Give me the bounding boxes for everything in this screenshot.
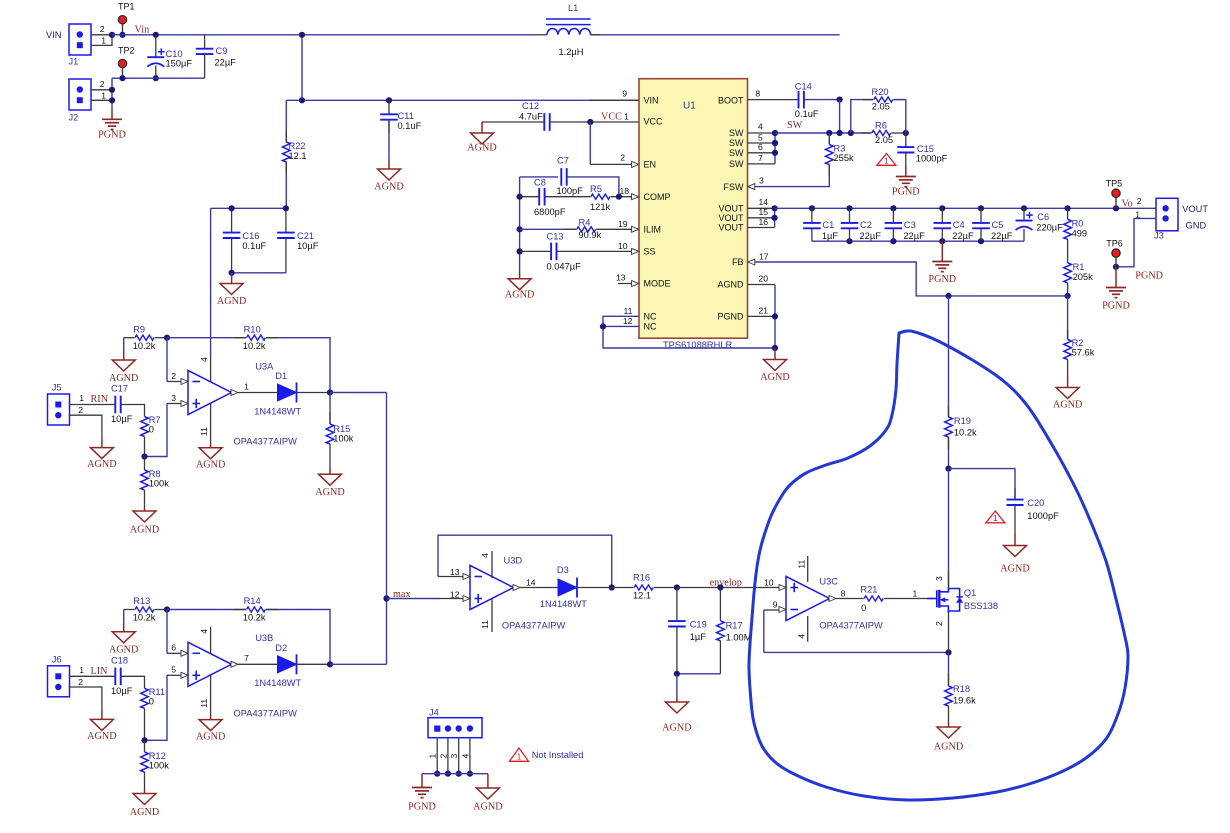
resistor R2 57.6k xyxy=(1067,296,1069,340)
svg-text:1N4148WT: 1N4148WT xyxy=(254,406,301,416)
svg-text:3: 3 xyxy=(171,393,176,403)
wire VOUT rail xyxy=(775,207,1156,209)
svg-text:AGND: AGND xyxy=(196,731,225,742)
svg-text:2: 2 xyxy=(78,405,83,415)
svg-text:5: 5 xyxy=(171,665,176,675)
svg-text:1000pF: 1000pF xyxy=(916,153,948,163)
svg-text:RIN: RIN xyxy=(91,394,109,405)
diode D2 1N4148WT xyxy=(238,663,278,665)
svg-text:R11: R11 xyxy=(149,687,165,697)
svg-text:1: 1 xyxy=(101,91,106,101)
svg-text:AGND: AGND xyxy=(109,373,138,384)
resistor R12 100k xyxy=(144,740,146,752)
svg-text:10µF: 10µF xyxy=(111,686,133,696)
test point TP6 xyxy=(1115,253,1117,267)
svg-text:AGND: AGND xyxy=(374,182,403,193)
svg-text:U3A: U3A xyxy=(255,361,274,371)
wire inverting input pin 6 xyxy=(166,610,168,654)
transistor Q1 BSS138 xyxy=(927,598,937,600)
svg-text:SW: SW xyxy=(729,138,744,148)
svg-text:1: 1 xyxy=(913,588,918,598)
svg-text:8: 8 xyxy=(841,588,846,598)
svg-text:AGND: AGND xyxy=(467,143,496,154)
svg-text:12.1: 12.1 xyxy=(289,151,307,161)
svg-text:150µF: 150µF xyxy=(166,59,193,69)
svg-text:4: 4 xyxy=(796,634,806,639)
capacitor C19 1uF xyxy=(676,588,678,622)
capacitor C17 10uF xyxy=(70,404,116,406)
svg-text:AGND: AGND xyxy=(87,459,116,470)
svg-text:11: 11 xyxy=(480,620,490,629)
resistor R6 2.05 xyxy=(861,132,871,134)
note Not Installed xyxy=(510,748,529,761)
svg-text:VOUT: VOUT xyxy=(1182,204,1208,214)
svg-text:C19: C19 xyxy=(690,620,707,630)
resistor R18 19.6k xyxy=(948,652,950,686)
wire J2 leads xyxy=(91,89,112,91)
svg-text:255k: 255k xyxy=(834,153,855,163)
svg-text:2: 2 xyxy=(1137,196,1142,206)
svg-text:U3B: U3B xyxy=(255,633,273,643)
svg-text:10.2k: 10.2k xyxy=(133,341,156,351)
svg-text:0.1uF: 0.1uF xyxy=(242,241,266,251)
svg-text:VCC: VCC xyxy=(601,111,622,122)
wire COMP bus xyxy=(519,177,521,270)
wire VIN rail to U1 xyxy=(286,99,639,101)
svg-text:R7: R7 xyxy=(149,415,161,425)
svg-text:PGND: PGND xyxy=(928,274,956,285)
svg-text:2: 2 xyxy=(100,79,105,89)
capacitor C16 0.1uF xyxy=(211,207,286,209)
svg-text:LIN: LIN xyxy=(91,666,109,677)
svg-text:FSW: FSW xyxy=(724,182,745,192)
connector J2 xyxy=(69,79,91,110)
resistor R21 0 xyxy=(836,598,864,600)
svg-text:21: 21 xyxy=(759,306,769,316)
svg-text:C7: C7 xyxy=(557,156,569,166)
wire VOUT bottom rail xyxy=(812,240,1024,242)
ground PGND TP6 xyxy=(1115,267,1117,288)
svg-text:4.7uF: 4.7uF xyxy=(519,111,543,121)
svg-text:0.1uF: 0.1uF xyxy=(795,109,819,119)
svg-text:NC: NC xyxy=(644,312,657,322)
svg-text:C15: C15 xyxy=(917,144,934,154)
wire envelope filter bottom xyxy=(677,673,721,675)
ground AGND U1 xyxy=(774,348,776,360)
svg-text:AGND: AGND xyxy=(505,290,534,301)
svg-text:14: 14 xyxy=(759,197,769,207)
resistor R7 0 xyxy=(141,417,149,437)
capacitor C11 0.1uF xyxy=(388,100,390,114)
wire VOUT pins chain xyxy=(748,207,775,209)
svg-text:C3: C3 xyxy=(904,220,916,230)
ground AGND C20 xyxy=(1014,534,1016,546)
wire J5 pin2 to AGND xyxy=(70,415,102,437)
test point TP5 xyxy=(1115,193,1117,208)
svg-text:D1: D1 xyxy=(275,371,287,381)
svg-text:20: 20 xyxy=(759,274,769,284)
svg-text:100pF: 100pF xyxy=(557,186,584,196)
svg-text:8: 8 xyxy=(755,89,760,99)
svg-text:AGND: AGND xyxy=(196,460,225,471)
ground AGND envelope filter xyxy=(676,674,678,697)
svg-text:Q1: Q1 xyxy=(964,588,976,598)
svg-text:6800pF: 6800pF xyxy=(534,207,566,217)
svg-text:1: 1 xyxy=(517,753,522,762)
resistor R1 205k xyxy=(1064,263,1072,283)
ground AGND R9 xyxy=(123,338,125,351)
test point TP1 xyxy=(122,20,124,35)
svg-text:7: 7 xyxy=(244,653,249,663)
svg-text:U1: U1 xyxy=(683,101,696,112)
resistor R19 10.2k xyxy=(948,296,950,417)
svg-text:AGND: AGND xyxy=(315,487,344,498)
svg-text:VOUT: VOUT xyxy=(718,204,744,214)
svg-text:R8: R8 xyxy=(149,469,161,479)
ground AGND C16 xyxy=(231,273,233,284)
ground AGND C11 xyxy=(388,159,390,169)
svg-text:AGND: AGND xyxy=(109,645,138,656)
ground AGND J5 xyxy=(101,437,103,447)
svg-text:4: 4 xyxy=(199,357,209,362)
svg-text:EN: EN xyxy=(644,160,657,170)
svg-text:SW: SW xyxy=(729,148,744,158)
svg-text:4: 4 xyxy=(199,629,209,634)
wire SW rail xyxy=(775,132,871,134)
svg-text:C18: C18 xyxy=(111,656,128,666)
svg-text:10.2k: 10.2k xyxy=(954,428,977,438)
svg-text:R16: R16 xyxy=(633,573,650,583)
capacitor C13 0.047uF xyxy=(520,250,551,252)
svg-text:6: 6 xyxy=(758,142,763,152)
svg-text:GND: GND xyxy=(1186,221,1207,231)
connector J5 xyxy=(48,394,70,425)
svg-text:11: 11 xyxy=(623,306,632,316)
capacitor C9 22uF xyxy=(204,35,206,49)
wire J4 leads xyxy=(436,738,438,774)
svg-text:1000pF: 1000pF xyxy=(1027,511,1059,521)
svg-text:R13: R13 xyxy=(133,596,150,606)
wire U3C feedback xyxy=(763,610,765,652)
svg-text:VCC: VCC xyxy=(644,116,664,126)
warning triangle C20 xyxy=(986,511,1005,523)
ground AGND J4 xyxy=(487,774,489,788)
svg-text:NC: NC xyxy=(644,322,657,332)
svg-text:PGND: PGND xyxy=(1135,270,1163,281)
svg-text:1: 1 xyxy=(428,754,438,759)
svg-text:1µF: 1µF xyxy=(690,632,707,642)
svg-text:1: 1 xyxy=(79,393,84,403)
svg-text:OPA4377AIPW: OPA4377AIPW xyxy=(502,621,566,631)
capacitor C4 22µF xyxy=(941,208,943,223)
svg-text:BOOT: BOOT xyxy=(718,96,744,106)
svg-text:12: 12 xyxy=(450,589,460,599)
svg-text:VIN: VIN xyxy=(46,30,62,40)
svg-text:TP6: TP6 xyxy=(1106,238,1123,248)
wire U3A pin 11 xyxy=(210,404,212,444)
svg-text:C14: C14 xyxy=(795,81,812,91)
wire VCC to EN xyxy=(589,122,591,164)
svg-text:R22: R22 xyxy=(289,141,306,151)
svg-text:2: 2 xyxy=(438,754,448,759)
resistor R4 90.9k xyxy=(520,228,577,230)
svg-text:1: 1 xyxy=(244,381,249,391)
svg-text:TP1: TP1 xyxy=(118,2,135,12)
op-amp U3D OPA4377AIPW xyxy=(470,565,514,609)
svg-text:BSS138: BSS138 xyxy=(964,601,998,611)
svg-text:2: 2 xyxy=(620,153,625,163)
wire Q1 source xyxy=(948,613,950,652)
resistor R8 100k xyxy=(144,457,146,471)
svg-text:11: 11 xyxy=(199,699,209,708)
svg-text:1: 1 xyxy=(993,514,998,523)
wire J6 pin2 to AGND xyxy=(70,687,102,709)
resistor R10 10.2k xyxy=(167,337,246,339)
pin MODE stub xyxy=(618,283,632,285)
ground AGND U3A xyxy=(210,444,212,448)
svg-text:22µF: 22µF xyxy=(991,231,1013,241)
svg-text:C2: C2 xyxy=(860,220,872,230)
svg-text:4: 4 xyxy=(758,122,763,132)
svg-text:J3: J3 xyxy=(1154,230,1164,240)
wire J3 GND to TP6 xyxy=(1116,218,1156,266)
capacitor C14 0.1uF xyxy=(748,99,799,101)
svg-text:SS: SS xyxy=(644,247,656,257)
svg-text:14: 14 xyxy=(526,577,536,587)
svg-text:C11: C11 xyxy=(398,111,414,121)
svg-text:PGND: PGND xyxy=(892,187,920,198)
svg-text:FB: FB xyxy=(732,257,744,267)
warning triangle C15 xyxy=(877,154,896,166)
capacitor C6 220uF xyxy=(1023,208,1025,220)
svg-text:18: 18 xyxy=(620,186,630,196)
svg-text:ILIM: ILIM xyxy=(644,225,662,235)
diode D3 1N4148WT xyxy=(520,587,558,589)
capacitor C15 1000pF xyxy=(905,133,907,147)
svg-text:2: 2 xyxy=(171,371,176,381)
svg-text:AGND: AGND xyxy=(217,296,246,307)
svg-text:U3D: U3D xyxy=(504,556,523,566)
svg-text:SW: SW xyxy=(729,128,744,138)
svg-text:AGND: AGND xyxy=(473,802,502,813)
svg-text:PGND: PGND xyxy=(98,130,126,141)
wire max bus vertical xyxy=(386,393,388,665)
wire input bottom rail xyxy=(112,77,205,79)
svg-text:11: 11 xyxy=(796,559,806,568)
svg-text:C4: C4 xyxy=(953,220,965,230)
svg-text:3: 3 xyxy=(449,754,459,759)
test point TP2 xyxy=(122,64,124,79)
capacitor C20 1000pF xyxy=(949,469,1016,500)
svg-text:C16: C16 xyxy=(242,231,259,241)
svg-text:AGND: AGND xyxy=(934,742,963,753)
wire FB net xyxy=(748,259,755,265)
svg-text:10: 10 xyxy=(764,578,774,588)
op-amp U3A OPA4377AIPW xyxy=(188,370,232,414)
svg-text:C20: C20 xyxy=(1027,498,1044,508)
wire inverting input pin 2 xyxy=(166,338,168,382)
svg-text:2: 2 xyxy=(934,621,944,626)
svg-text:PGND: PGND xyxy=(1102,301,1130,312)
svg-text:R20: R20 xyxy=(872,87,889,97)
svg-text:Vo: Vo xyxy=(1122,198,1133,209)
resistor R16 12.1 xyxy=(612,587,634,589)
svg-text:R19: R19 xyxy=(954,416,971,426)
svg-text:205k: 205k xyxy=(1073,272,1094,282)
svg-text:R4: R4 xyxy=(579,217,591,227)
svg-text:57.6k: 57.6k xyxy=(1072,348,1095,358)
svg-text:AGND: AGND xyxy=(1053,400,1082,411)
svg-text:R2: R2 xyxy=(1072,338,1084,348)
svg-text:J4: J4 xyxy=(429,708,439,718)
diode D1 1N4148WT xyxy=(238,392,278,394)
ground AGND J6 xyxy=(101,709,103,719)
wire decoupling to op-amp pin 4 xyxy=(210,208,212,355)
svg-text:121k: 121k xyxy=(590,202,611,212)
svg-text:0.047µF: 0.047µF xyxy=(547,262,582,272)
wire Vin rail xyxy=(112,34,536,36)
svg-text:6: 6 xyxy=(171,643,176,653)
ground AGND R13 xyxy=(123,610,125,623)
svg-text:2: 2 xyxy=(78,677,83,687)
connector J4 xyxy=(428,718,482,738)
svg-text:R6: R6 xyxy=(875,120,887,130)
svg-text:0.1uF: 0.1uF xyxy=(398,121,422,131)
resistor R9 10.2k xyxy=(124,337,135,339)
svg-text:0: 0 xyxy=(861,603,866,613)
svg-text:AGND: AGND xyxy=(130,807,159,818)
svg-text:10.2k: 10.2k xyxy=(243,341,266,351)
ground PGND C15 xyxy=(905,166,907,177)
capacitor C21 10uF xyxy=(285,208,287,232)
svg-text:1µF: 1µF xyxy=(822,231,839,241)
svg-text:AGND: AGND xyxy=(130,525,159,536)
wire NC pins xyxy=(603,316,639,326)
svg-text:4: 4 xyxy=(460,754,470,759)
svg-text:3: 3 xyxy=(759,176,764,186)
svg-text:1: 1 xyxy=(101,36,106,46)
svg-text:1N4148WT: 1N4148WT xyxy=(254,678,301,688)
svg-text:90.9k: 90.9k xyxy=(579,230,602,240)
svg-text:PGND: PGND xyxy=(717,312,744,322)
svg-text:499: 499 xyxy=(1072,228,1088,238)
svg-text:C12: C12 xyxy=(522,101,539,111)
wire Q1 drain xyxy=(948,469,950,588)
resistor R11 0 xyxy=(141,688,149,708)
svg-text:C6: C6 xyxy=(1037,212,1049,222)
svg-text:C10: C10 xyxy=(166,49,183,59)
pin FSW arrow xyxy=(748,184,755,190)
op-amp U3B OPA4377AIPW xyxy=(188,642,232,686)
ground AGND comp bus xyxy=(519,270,521,279)
svg-text:R1: R1 xyxy=(1073,262,1085,272)
svg-text:Not Installed: Not Installed xyxy=(532,750,584,760)
svg-text:10: 10 xyxy=(618,241,628,251)
svg-text:VIN: VIN xyxy=(644,96,659,106)
svg-text:13: 13 xyxy=(616,273,626,283)
svg-text:4: 4 xyxy=(480,553,490,558)
ground PGND J2 xyxy=(111,110,113,119)
capacitor C2 22µF xyxy=(849,208,851,223)
svg-text:10µF: 10µF xyxy=(111,414,133,424)
svg-text:COMP: COMP xyxy=(644,192,671,202)
svg-text:R10: R10 xyxy=(244,324,261,334)
svg-text:D3: D3 xyxy=(557,565,569,575)
svg-text:16: 16 xyxy=(759,217,769,227)
svg-text:C17: C17 xyxy=(111,384,128,394)
svg-text:TP5: TP5 xyxy=(1106,178,1123,188)
ground AGND R18 xyxy=(948,722,950,727)
svg-text:envelop: envelop xyxy=(710,577,742,588)
wire SW pins chain xyxy=(748,132,776,134)
svg-text:1.00M: 1.00M xyxy=(726,632,752,642)
svg-text:SW: SW xyxy=(729,159,744,169)
svg-text:C8: C8 xyxy=(534,178,546,188)
resistor R3 255k xyxy=(828,133,830,145)
svg-text:22µF: 22µF xyxy=(952,231,974,241)
connector J1 xyxy=(69,24,91,55)
resistor R15 100k xyxy=(329,393,331,425)
svg-text:17: 17 xyxy=(759,251,769,261)
capacitor C10 150uF xyxy=(155,35,157,57)
svg-text:R3: R3 xyxy=(834,143,846,153)
capacitor C3 22µF xyxy=(892,208,894,223)
svg-text:OPA4377AIPW: OPA4377AIPW xyxy=(234,437,298,447)
svg-text:R12: R12 xyxy=(149,751,166,761)
svg-text:TP2: TP2 xyxy=(118,46,135,56)
svg-text:R18: R18 xyxy=(953,684,970,694)
svg-text:AGND: AGND xyxy=(87,731,116,742)
svg-text:2.05: 2.05 xyxy=(872,102,890,112)
svg-text:1: 1 xyxy=(79,665,84,675)
ground AGND R8 xyxy=(144,508,146,511)
resistor R20 2.05 xyxy=(851,100,874,133)
svg-text:R14: R14 xyxy=(244,596,261,606)
ground PGND output caps xyxy=(941,241,943,261)
svg-text:AGND: AGND xyxy=(717,280,744,290)
svg-text:R9: R9 xyxy=(133,324,145,334)
svg-text:12: 12 xyxy=(623,316,633,326)
svg-text:OPA4377AIPW: OPA4377AIPW xyxy=(819,620,883,630)
wire U3B pin 11 xyxy=(210,675,212,715)
svg-text:0: 0 xyxy=(149,425,154,435)
svg-text:22µF: 22µF xyxy=(903,231,925,241)
svg-text:10µF: 10µF xyxy=(297,241,319,251)
svg-text:J5: J5 xyxy=(52,383,62,393)
resistor R13 10.2k xyxy=(124,609,135,611)
svg-text:3: 3 xyxy=(934,576,944,581)
wire SW node vertical xyxy=(839,100,841,133)
svg-text:13: 13 xyxy=(450,567,460,577)
svg-text:1: 1 xyxy=(624,111,629,121)
capacitor C5 22µF xyxy=(980,208,982,223)
wire U3D feedback xyxy=(438,535,612,587)
svg-text:R0: R0 xyxy=(1072,219,1084,229)
svg-text:Vin: Vin xyxy=(135,25,150,36)
svg-text:0: 0 xyxy=(149,696,154,706)
wire D2 output to max bus xyxy=(330,663,387,665)
svg-text:2.05: 2.05 xyxy=(875,135,893,145)
capacitor C12 4.7uF xyxy=(482,121,544,123)
resistor R0 499 xyxy=(1067,208,1069,219)
svg-text:1N4148WT: 1N4148WT xyxy=(540,599,587,609)
svg-text:100k: 100k xyxy=(333,434,354,444)
svg-text:22µF: 22µF xyxy=(215,58,237,68)
capacitor C7 100pF xyxy=(520,176,558,178)
svg-text:220µF: 220µF xyxy=(1036,223,1063,233)
capacitor C18 10uF xyxy=(70,675,116,677)
svg-text:C13: C13 xyxy=(547,231,564,241)
